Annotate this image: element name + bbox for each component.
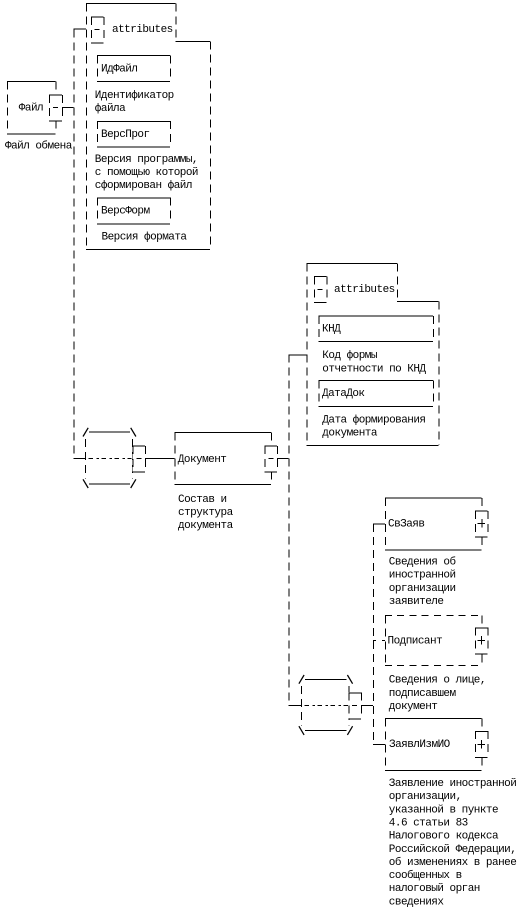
svg-text:ДатаДок: ДатаДок — [322, 388, 365, 400]
minus glyph of Файл — [53, 107, 58, 109]
svg-text:иностранной: иностранной — [389, 570, 456, 582]
expand box of СвЗаяв — [475, 511, 488, 537]
attributes frame 1 outline — [86, 3, 175, 5]
svg-text:Версия формата: Версия формата — [102, 231, 188, 244]
sequence hexagon 1 dash-dot middle wire — [88, 458, 131, 460]
plus glyph of СвЗаяв — [477, 523, 485, 525]
trunk2 vertical dashed wire — [288, 354, 290, 705]
svg-text:заявителе: заявителе — [389, 596, 444, 608]
minus glyph of sequence 1 — [136, 458, 141, 460]
attributes frame 2 outline — [307, 263, 397, 265]
svg-text:Подписант: Подписант — [388, 636, 443, 648]
svg-text:Налогового кодекса: Налогового кодекса — [389, 831, 499, 843]
wire trunk3 to СвЗаяв — [373, 523, 385, 525]
expand box of sequence 1 — [133, 446, 146, 472]
svg-text:документ: документ — [389, 701, 438, 713]
svg-text:отчетности по КНД: отчетности по КНД — [322, 363, 426, 375]
svg-text:Российской Федерации,: Российской Федерации, — [389, 844, 517, 856]
svg-text:Состав и: Состав и — [178, 494, 227, 506]
svg-text:Файл обмена: Файл обмена — [5, 140, 73, 153]
svg-text:СвЗаяв: СвЗаяв — [388, 519, 424, 531]
svg-text:Заявление иностранной: Заявление иностранной — [389, 778, 517, 790]
svg-text:организации,: организации, — [389, 791, 462, 803]
attribute box ИдФайл — [97, 55, 170, 57]
attribute box ВерсФорм — [97, 197, 170, 199]
svg-text:Версия программы,: Версия программы, — [95, 154, 198, 166]
attribute box ДатаДок — [319, 380, 434, 382]
wire trunk1 to sequence hexagon 1 — [73, 457, 85, 459]
svg-text:4.6 статьи 83: 4.6 статьи 83 — [389, 818, 468, 830]
svg-text:attributes: attributes — [112, 24, 173, 36]
wire sequence1 to Документ — [145, 458, 175, 460]
svg-text:Код формы: Код формы — [322, 349, 378, 362]
sequence hexagon 2 dash-dot middle wire — [304, 705, 348, 707]
wire trunk2 to sequence hexagon 2 — [289, 705, 301, 707]
expand box of sequence 2 — [349, 692, 362, 718]
attribute box ВерсПрог — [97, 120, 170, 122]
wire trunk1 to attributes frame 1 — [73, 28, 86, 30]
sequence hexagon 2 — [305, 678, 347, 680]
element box Документ — [175, 432, 271, 434]
minus glyph of attributes 1 — [95, 29, 100, 31]
dashed wire trunk3 to Подписант — [373, 640, 385, 642]
wire trunk2 to attributes frame 2 — [289, 354, 307, 356]
sequence hexagon 1 — [89, 431, 130, 433]
svg-text:attributes: attributes — [334, 284, 395, 296]
trunk3 vertical dashed wire — [372, 524, 374, 745]
svg-text:ВерсПрог: ВерсПрог — [101, 129, 150, 141]
wire Документ to trunk2 — [277, 458, 289, 460]
svg-text:с помощью которой: с помощью которой — [95, 167, 198, 179]
svg-text:документа: документа — [178, 520, 234, 532]
wire trunk3 to ЗаявлИзмИО — [373, 744, 385, 746]
svg-text:организации: организации — [389, 583, 456, 595]
svg-text:сообщенных в: сообщенных в — [389, 869, 462, 882]
svg-text:Файл: Файл — [19, 103, 43, 115]
element box Файл — [7, 81, 56, 83]
svg-text:об изменениях в ранее: об изменениях в ранее — [389, 856, 517, 869]
svg-text:Сведения об: Сведения об — [389, 556, 456, 569]
svg-text:сведениях: сведениях — [389, 897, 445, 909]
svg-text:сформирован файл: сформирован файл — [95, 179, 192, 192]
svg-text:подписавшем: подписавшем — [389, 688, 457, 700]
svg-text:налоговый орган: налоговый орган — [389, 883, 480, 895]
expand box of ЗаявлИзмИО — [475, 731, 488, 757]
svg-text:файла: файла — [95, 102, 126, 115]
expand box of Подписант — [475, 627, 488, 653]
wire sequence2 to trunk3 — [361, 705, 373, 707]
plus glyph of Подписант — [477, 640, 485, 642]
svg-text:ЗаявлИзмИО: ЗаявлИзмИО — [389, 739, 451, 751]
svg-text:Сведения о лице,: Сведения о лице, — [389, 675, 486, 687]
svg-text:документа: документа — [322, 428, 378, 440]
svg-text:ИдФайл: ИдФайл — [101, 63, 137, 75]
expand box of Документ — [265, 446, 278, 472]
plus glyph of ЗаявлИзмИО — [477, 744, 485, 746]
sequence hexagon 2 slashes — [299, 675, 304, 684]
svg-text:Идентификатор: Идентификатор — [95, 89, 174, 102]
wire Файл to trunk1 — [62, 107, 74, 109]
expand box of attributes 1 — [91, 17, 104, 43]
svg-text:КНД: КНД — [322, 324, 341, 336]
expand box of attributes 2 — [314, 276, 327, 302]
sequence hexagon 1 slashes — [83, 428, 88, 437]
svg-text:указанной в пункте: указанной в пункте — [389, 804, 498, 816]
minus glyph of attributes 2 — [318, 288, 323, 290]
element box СвЗаяв — [385, 497, 481, 499]
svg-text:Документ: Документ — [178, 454, 227, 466]
attribute box КНД — [319, 315, 434, 317]
svg-text:структура: структура — [178, 507, 234, 519]
minus glyph of sequence 2 — [352, 705, 357, 707]
element box ЗаявлИзмИО — [385, 718, 481, 720]
expand box of Файл — [49, 95, 62, 121]
svg-text:ВерсФорм: ВерсФорм — [101, 206, 150, 218]
element box Подписант (dashed) — [385, 615, 482, 617]
svg-text:Дата формирования: Дата формирования — [322, 414, 425, 427]
minus glyph of Документ — [268, 458, 273, 460]
trunk1 vertical dashed wire — [73, 29, 75, 458]
